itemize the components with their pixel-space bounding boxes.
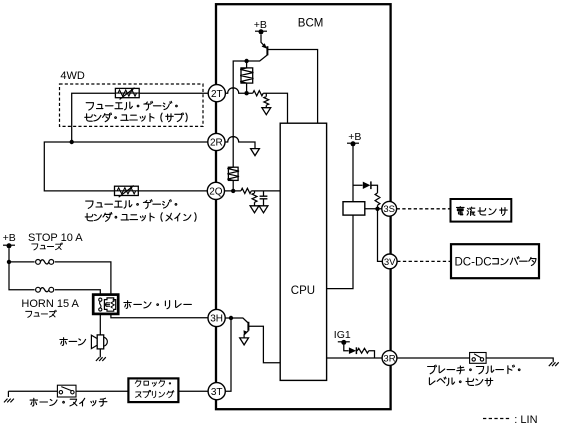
svg-text:STOP 10 A: STOP 10 A [28,232,83,244]
svg-text:DC-DC: DC-DC [455,257,492,269]
svg-text:2Q: 2Q [209,187,223,198]
svg-text:BCM: BCM [298,17,324,29]
svg-text:3R: 3R [383,353,395,364]
svg-text:+B: +B [348,131,361,143]
svg-text:CPU: CPU [291,285,315,297]
svg-text:3V: 3V [384,257,396,268]
svg-text:3S: 3S [383,204,395,215]
svg-text:4WD: 4WD [60,70,85,82]
svg-text:3H: 3H [210,314,223,325]
svg-text:3T: 3T [211,387,223,398]
svg-text:2T: 2T [211,89,223,100]
svg-text:+B: +B [3,232,16,244]
svg-text:HORN 15 A: HORN 15 A [21,298,79,310]
svg-text:2R: 2R [210,138,223,149]
svg-text:: LIN: : LIN [514,414,537,426]
svg-text:IG1: IG1 [334,329,351,341]
svg-text:+B: +B [254,19,267,31]
